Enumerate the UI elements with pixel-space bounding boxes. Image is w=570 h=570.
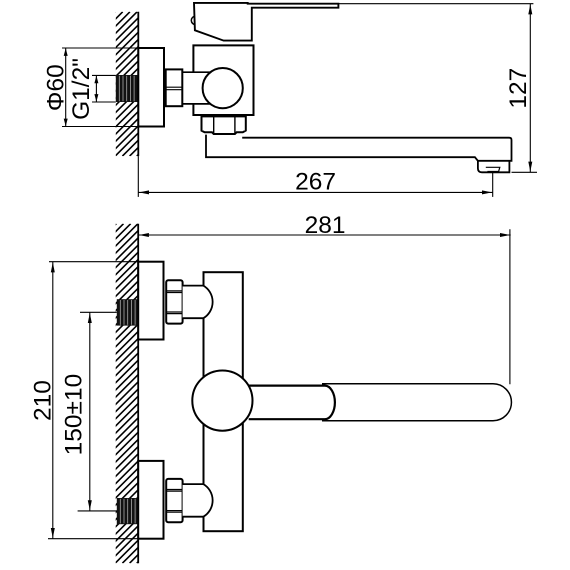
svg-text:G1/2": G1/2" <box>68 58 95 120</box>
svg-text:150±10: 150±10 <box>61 374 88 456</box>
svg-text:267: 267 <box>295 169 336 196</box>
svg-text:210: 210 <box>30 380 57 421</box>
svg-text:127: 127 <box>505 68 532 109</box>
svg-text:281: 281 <box>305 212 346 239</box>
svg-text:Φ60: Φ60 <box>43 64 70 111</box>
